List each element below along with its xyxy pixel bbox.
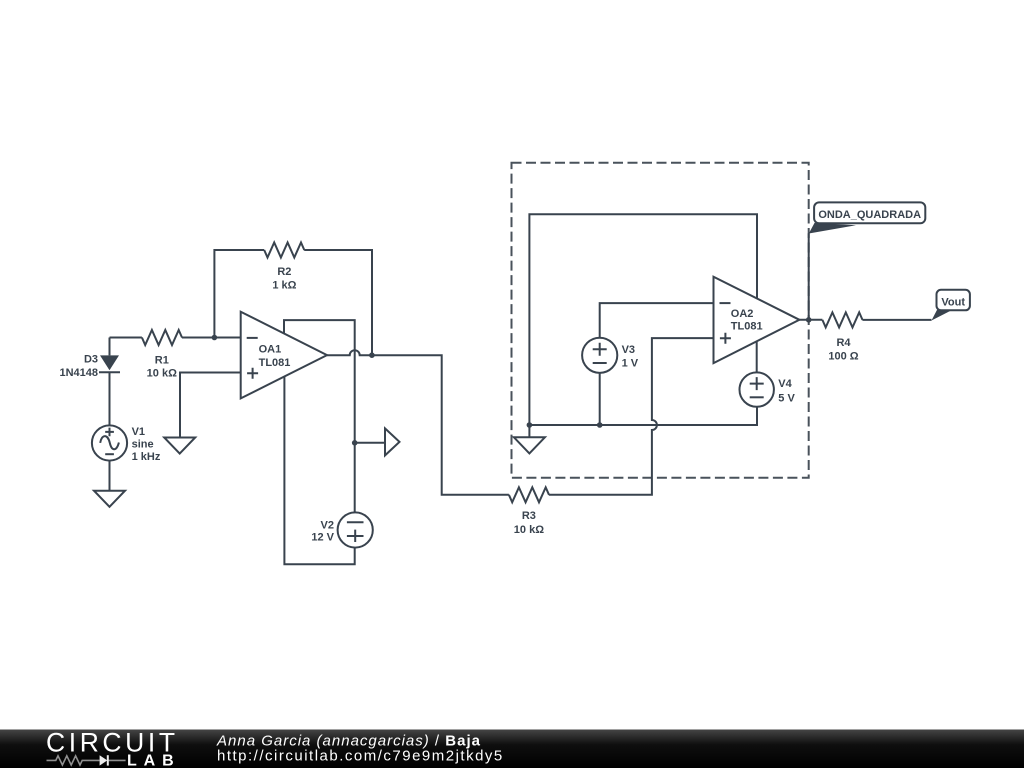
svg-text:10 kΩ: 10 kΩ <box>147 367 177 379</box>
node flag near V2 <box>385 428 400 455</box>
svg-text:TL081: TL081 <box>259 357 291 369</box>
svg-text:http://circuitlab.com/c79e9m2j: http://circuitlab.com/c79e9m2jtkdy5 <box>217 747 504 764</box>
junction node dots <box>212 317 812 446</box>
ground below OA1 plus input <box>164 438 195 454</box>
resistor R4 <box>822 312 862 327</box>
flag ONDA_QUADRADA <box>809 202 926 233</box>
ground below V1 <box>94 491 125 507</box>
svg-text:ONDA_QUADRADA: ONDA_QUADRADA <box>818 209 921 221</box>
svg-text:1 kΩ: 1 kΩ <box>272 279 296 291</box>
wire R1 row <box>110 337 241 339</box>
wire node flag stub <box>355 442 385 444</box>
footer bar <box>0 730 1024 769</box>
wire OA1 V+ rail to V2 top <box>284 320 355 512</box>
wire OA2 output row <box>799 319 931 321</box>
wire OA2 V- to V4 <box>756 340 758 373</box>
svg-text:OA2: OA2 <box>731 308 754 320</box>
svg-text:sine: sine <box>132 439 154 451</box>
svg-text:1 kHz: 1 kHz <box>132 451 161 463</box>
source V4 <box>740 372 774 406</box>
op-amp OA1 <box>241 312 327 399</box>
svg-text:1 V: 1 V <box>622 357 639 369</box>
logo resistor-diode glyph <box>47 756 126 765</box>
svg-text:Vout: Vout <box>941 297 965 309</box>
wire D3 branch <box>109 338 111 491</box>
wire box bottom rail with hop <box>529 407 757 425</box>
ground inside box <box>514 437 545 453</box>
svg-text:5 V: 5 V <box>778 392 795 404</box>
svg-text:R3: R3 <box>522 510 536 522</box>
svg-text:LAB: LAB <box>127 753 181 769</box>
svg-text:V1: V1 <box>132 426 145 438</box>
source V3 <box>582 338 617 373</box>
svg-text:10 kΩ: 10 kΩ <box>514 524 544 536</box>
wire V3 stubs <box>600 303 714 425</box>
svg-text:R2: R2 <box>277 266 291 278</box>
svg-text:V4: V4 <box>778 378 792 390</box>
wire OA1 output with hop <box>327 350 509 495</box>
op-amp OA2 <box>714 277 800 363</box>
svg-text:100 Ω: 100 Ω <box>828 350 858 362</box>
svg-text:D3: D3 <box>84 353 98 365</box>
svg-text:1N4148: 1N4148 <box>59 367 98 379</box>
svg-text:V2: V2 <box>321 520 334 532</box>
resistor R2 <box>264 243 304 258</box>
wire R3 right riser <box>549 338 714 495</box>
svg-text:R1: R1 <box>155 355 169 367</box>
svg-text:V3: V3 <box>622 344 635 356</box>
dashed comparator box <box>512 163 809 478</box>
source V2 <box>338 512 373 547</box>
wire OA1 V- rail to V2 bottom <box>284 375 354 564</box>
wire R2 right branch <box>304 250 372 355</box>
svg-text:OA1: OA1 <box>259 343 282 355</box>
svg-text:12 V: 12 V <box>311 532 334 544</box>
wire OA1 noninverting input to ground <box>180 373 241 438</box>
flag Vout <box>932 290 970 321</box>
svg-text:TL081: TL081 <box>731 321 763 333</box>
wire box ground stub <box>528 425 530 437</box>
svg-text:R4: R4 <box>836 337 851 349</box>
resistor R3 <box>509 487 549 502</box>
wire ONDA_QUADRADA riser <box>808 233 810 319</box>
resistor R1 <box>142 330 182 345</box>
source V1 <box>92 425 127 460</box>
diode D3 <box>99 355 120 372</box>
wire R2 left branch <box>214 250 264 338</box>
wire box V+ loop <box>529 214 757 425</box>
